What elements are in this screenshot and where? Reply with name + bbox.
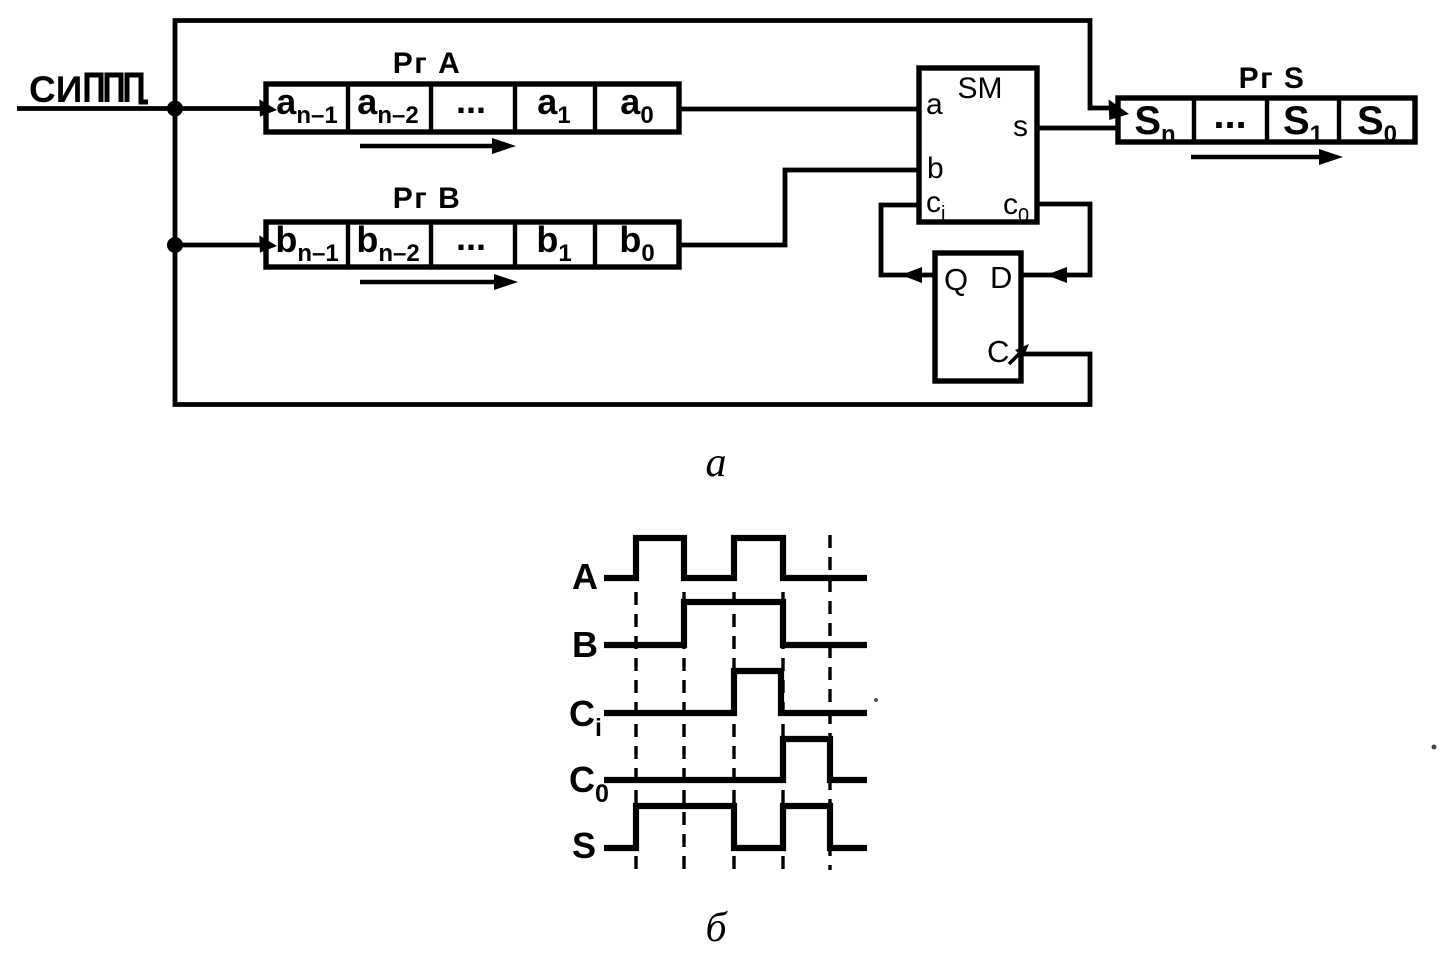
svg-text:A: A [572, 556, 598, 597]
svg-text:Рг S: Рг S [1239, 62, 1306, 95]
svg-text:...: ... [456, 80, 486, 121]
svg-text:СИ: СИ [29, 69, 82, 110]
svg-text:Рг В: Рг В [393, 182, 462, 215]
svg-text:C0: C0 [569, 759, 609, 808]
svg-text:...: ... [456, 217, 486, 258]
svg-text:Q: Q [944, 262, 968, 297]
svg-text:D: D [990, 260, 1012, 295]
svg-text:S: S [572, 825, 596, 866]
svg-text:б: б [705, 905, 728, 951]
svg-text:C: C [987, 334, 1009, 369]
svg-text:SM: SM [958, 72, 1003, 105]
svg-text:b: b [927, 152, 944, 185]
svg-text:B: B [572, 624, 598, 665]
svg-text:а: а [706, 440, 727, 486]
svg-text:...: ... [1213, 93, 1246, 137]
svg-text:s: s [1013, 110, 1028, 143]
svg-text:a: a [926, 88, 943, 121]
svg-text:Ci: Ci [569, 693, 602, 742]
svg-text:Рг А: Рг А [393, 47, 462, 80]
